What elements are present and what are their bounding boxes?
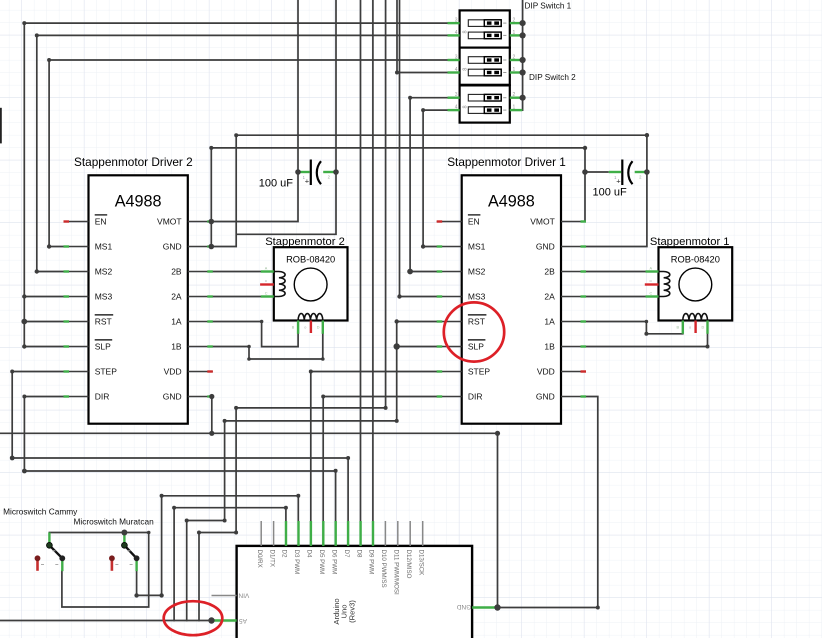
node cap C2 plus junction [295,169,301,175]
svg-text:D6 PWM: D6 PWM [330,550,337,575]
node bend A5net 3 [234,531,238,535]
wire driver2 STEP to arduino D7 [12,372,348,547]
svg-text:DIP Switch 1: DIP Switch 1 [525,2,572,11]
node DIP bus 3 [520,57,526,63]
node bend 1B2 b [247,357,251,361]
node bend DIR2 b [22,469,27,474]
svg-text:2B: 2B [544,267,555,277]
wire cap C2 minus to GND rail [212,135,337,246]
svg-text:DIR: DIR [95,392,110,402]
svg-text:SLP: SLP [468,342,484,352]
node bend STEP2 b [10,456,15,461]
svg-text:D3 PWM: D3 PWM [293,550,300,575]
svg-text:GND: GND [163,242,182,252]
node bend GND1 [596,606,600,610]
svg-text:D10 PWM/SS: D10 PWM/SS [380,550,387,588]
svg-text:2A: 2A [544,292,555,302]
svg-text:RST: RST [468,317,485,327]
wire DIP right bus [510,0,523,110]
node bend A5net top [384,406,388,410]
svg-text:1B: 1B [171,342,182,352]
svg-text:GND: GND [536,242,555,252]
svg-text:D2: D2 [281,550,288,558]
svg-text:1: 1 [513,30,516,36]
svg-text:MS3: MS3 [95,292,113,302]
svg-text:3: 3 [455,18,458,24]
node DIP bus 2 [520,32,526,38]
svg-text:D0/RX: D0/RX [256,550,263,568]
node bend D2 b [284,506,288,510]
wire left edge stub [0,109,2,143]
svg-text:8: 8 [463,68,469,71]
svg-text:+: + [305,177,310,186]
svg-text:RST: RST [95,317,112,327]
svg-text:D13/SCK: D13/SCK [417,550,424,577]
wire driver2 GND pin8 to rail [211,397,213,434]
node arduino GND junction [494,604,500,610]
node rail junction [209,431,214,436]
capacitor C1 100uF [585,160,647,199]
node bend DIP3.4 [421,108,425,112]
svg-text:8: 8 [463,105,469,108]
svg-text:3: 3 [455,92,458,98]
wire microswitch Muratcan to arduino D3 [137,496,299,596]
svg-text:MS1: MS1 [95,242,113,252]
svg-text:D1/TX: D1/TX [268,550,275,568]
wire GND top rail [236,135,647,246]
svg-text:C: C [650,292,653,296]
wire driver2 2A to motor2 [212,296,261,298]
svg-text:D9 PWM: D9 PWM [368,550,375,575]
wire driver1 1A to motor1 [585,322,683,334]
svg-text:(Rev3): (Rev3) [348,600,357,623]
wire DIP1.4 to driver2 MS2 [37,35,448,271]
svg-text:Microswitch Muratcan: Microswitch Muratcan [74,517,155,527]
Arduino Uno (Rev3) [212,521,498,638]
node bend W1 [22,21,26,25]
node bend cap1 plus [583,146,587,150]
node driver2 GND8 junction [209,394,214,399]
svg-text:Microswitch Cammy: Microswitch Cammy [3,506,78,516]
wire DIP3.4 to driver1 MS1 [423,110,447,246]
node bend muratcan b [159,593,163,597]
svg-text:Stappenmotor Driver 2: Stappenmotor Driver 2 [74,155,193,169]
wire driver2 1B to motor2 [212,334,323,359]
wire driver1 RST-SLP to A5 net [187,322,438,621]
svg-text:DIR: DIR [468,392,483,402]
svg-text:4: 4 [455,30,458,36]
wire driver1 GND to arduino GND [498,397,598,608]
node driver2 GND junction [209,244,215,250]
node bend D3 b [296,494,300,498]
wire arduino D9 from top edge [372,0,374,546]
node bend DIP3.3 [408,96,412,100]
wire DIP3.3 to driver1 MS2 [410,98,447,272]
svg-text:4: 4 [455,105,458,111]
svg-text:VMOT: VMOT [530,217,555,227]
svg-text:A4988: A4988 [488,192,535,210]
svg-text:100 uF: 100 uF [593,187,628,199]
svg-text:o: o [689,326,691,330]
node bend D6 [334,469,338,473]
node bend 1A1 a [645,320,649,324]
stepper motor M2 ROB-08420 (Stappenmotor 2) [260,236,347,334]
svg-text:2: 2 [513,92,516,98]
svg-text:GND: GND [536,392,555,402]
node bend 1B2 a [247,345,251,349]
svg-text:A5: A5 [239,617,247,624]
svg-text:VDD: VDD [537,367,555,377]
svg-text:MS3: MS3 [468,292,486,302]
node driver1 MS1 end [421,244,425,248]
wire driver1 1B to motor1 [585,334,707,347]
node driver1 MS3 end [397,294,401,298]
node bend STEP2 [10,370,14,374]
wire driver1 2A to motor1 [585,296,645,298]
wire driver2 VMOT to cap C2 plus [211,148,298,247]
svg-text:DIP Switch 2: DIP Switch 2 [529,73,576,82]
node bend 1B1 [706,345,710,349]
svg-text:B: B [292,326,295,330]
node bend D2 a [172,506,176,510]
DIP switch package 1 [448,10,523,47]
svg-text:+: + [616,177,621,186]
svg-text:2A: 2A [171,292,182,302]
node bend RSTSLP 4 [185,519,189,523]
node bend 1A1 b [644,332,648,336]
wire driver2 1A to motor2 [212,322,298,347]
svg-text:ROB-08420: ROB-08420 [286,255,335,265]
svg-text:EN: EN [95,217,107,227]
node driver2 VMOT junction [209,219,215,225]
svg-text:8: 8 [463,30,469,33]
svg-text:SLP: SLP [95,342,111,352]
svg-text:o: o [265,279,267,283]
wire cap C2 minus top [335,0,337,172]
node bend 1A2 [260,320,264,324]
node DIP bus 4 [520,69,526,75]
stepper motor M1 ROB-08420 (Stappenmotor 1) [645,236,732,334]
svg-text:ROB-08420: ROB-08420 [671,255,720,265]
svg-text:1B: 1B [544,342,555,352]
svg-text:STEP: STEP [95,367,118,377]
node cap C2 minus junction [333,169,339,175]
svg-text:D: D [702,326,705,330]
svg-text:A4988: A4988 [115,192,162,210]
svg-text:4: 4 [455,67,458,73]
wire A5 net from top edge [199,0,386,621]
node bend VMOT rail [209,146,213,150]
svg-text:o: o [650,279,652,283]
node rail to GND junction [495,431,500,436]
node bend RSTSLP [395,419,399,423]
svg-text:2: 2 [513,55,516,61]
DIP switch package 3 [448,85,523,122]
node bend D4 [309,370,313,374]
node bend 1B2 c [321,357,325,361]
stepper driver U2 A4988 (Stappenmotor Driver 2) [64,155,213,424]
node cap C1 minus junction [644,169,650,175]
microswitch Muratcan [74,517,155,572]
svg-text:D4: D4 [306,550,313,558]
node driver2 MS2 end [35,269,39,273]
svg-text:D: D [317,326,320,330]
wire arduino D2 to A5 net [174,508,286,621]
wire driver2 DIR to arduino D6 [24,397,335,547]
capacitor C2 100uF [259,160,336,190]
wire driver1 DIR to arduino D5 [323,397,437,547]
microswitch Cammy [3,506,78,571]
svg-text:VIN: VIN [238,592,249,599]
node bend D3 a [160,494,164,498]
svg-text:Stappenmotor Driver 1: Stappenmotor Driver 1 [447,155,566,169]
annotation circle around arduino A5 junction [164,601,223,635]
svg-text:o: o [304,326,306,330]
svg-text:D5 PWM: D5 PWM [318,550,325,575]
node driver2 SLP end [22,344,26,348]
svg-text:VMOT: VMOT [157,217,182,227]
svg-text:2B: 2B [171,267,182,277]
wire arduino A5 row [0,620,212,622]
wire DIP2.4 from top edge [397,0,448,73]
node DIP bus 5 [520,95,526,101]
svg-text:D12/MISO: D12/MISO [405,550,412,579]
svg-text:1A: 1A [544,317,555,327]
node bend GND rail [234,133,238,137]
node bend cap1 minus [645,133,649,137]
wire DIP2.3 to driver2 MS1 [49,60,447,247]
node bend muratcan a [134,593,138,597]
svg-text:1: 1 [513,105,516,111]
node cap C1 plus junction [582,169,588,175]
DIP switch package 2 [448,48,523,85]
wire driver1 2B to motor1 [585,271,645,273]
node bend DIR2 [22,395,26,399]
wire DIP1.3 to driver2 MS3/RST/SLP net [24,23,447,346]
svg-text:100 uF: 100 uF [259,177,294,189]
node bend RSTSLP 2 [223,419,227,423]
node bend W3 [47,58,51,62]
node arduino A5 junction [208,617,214,623]
svg-text:MS2: MS2 [95,267,113,277]
wire arduino D8 from top edge [360,0,362,546]
svg-text:EN: EN [468,217,480,227]
node bend D5 [321,395,325,399]
svg-text:2: 2 [513,18,516,24]
svg-text:MS2: MS2 [468,267,486,277]
svg-text:D11 PWM/MOSI: D11 PWM/MOSI [393,550,400,596]
svg-text:1: 1 [513,67,516,73]
node driver2 RST junction [21,319,27,325]
wire cap C2 plus top [297,0,299,172]
svg-text:C: C [265,292,268,296]
node driver2 MS3 junction [22,294,26,298]
node bend A5net 2 [234,406,238,410]
node bend RSTSLP 3 [223,519,227,523]
svg-text:D8: D8 [355,550,362,558]
node driver2 MS1 end [47,244,51,248]
stepper driver U1 A4988 (Stappenmotor Driver 1) [437,155,586,424]
wire microswitch common rail [49,533,148,608]
svg-text:STEP: STEP [468,367,491,377]
node bend A5net 4 [197,531,201,535]
node DIP bus 1 [520,20,526,26]
svg-text:MS1: MS1 [468,242,486,252]
svg-text:GND: GND [456,603,471,610]
wire driver2 2B to motor2 [212,271,261,273]
svg-text:D7: D7 [343,550,350,558]
svg-text:GND: GND [163,392,182,402]
node microswitch common junction [121,530,127,536]
node bend sw common [147,531,151,535]
node driver1 RST junction [395,319,399,323]
node driver1 SLP junction [394,343,400,349]
svg-text:VDD: VDD [164,367,182,377]
node bend D7 [346,456,350,460]
node driver1 MS2 end [407,269,413,275]
node bend W2 [35,33,39,37]
svg-text:A: A [265,267,268,271]
wire GND bottom rail [0,433,498,607]
node bend DIP2.4 [395,71,399,75]
wire VMOT rail [211,148,585,222]
wire driver1 MS3 from top edge [400,0,438,297]
wire driver1 STEP to arduino D4 [311,372,438,547]
annotation circle around driver1 RST/SLP [444,302,504,361]
svg-text:1A: 1A [171,317,182,327]
svg-text:3: 3 [455,55,458,61]
